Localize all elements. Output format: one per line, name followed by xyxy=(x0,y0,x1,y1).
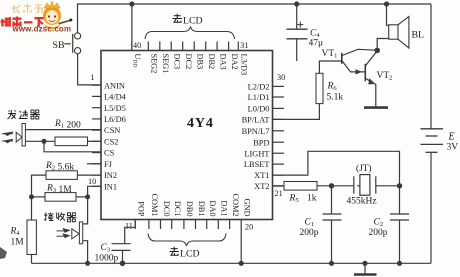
svg-text:47μ: 47μ xyxy=(309,38,324,48)
svg-text:R6: R6 xyxy=(327,81,338,92)
wire left column to R2 xyxy=(32,175,47,220)
svg-text:POP: POP xyxy=(137,201,146,217)
svg-text:www.dzsc.com: www.dzsc.com xyxy=(12,25,72,34)
wire bottom ground rail xyxy=(32,262,432,264)
svg-text:CS: CS xyxy=(104,149,115,158)
wire R1 to CS2 xyxy=(88,140,102,142)
wire R2 to IN2 xyxy=(77,174,101,176)
svg-text:LCD: LCD xyxy=(183,16,203,27)
resistor R3 1M xyxy=(45,193,76,202)
svg-text:DA0: DA0 xyxy=(208,200,217,216)
node R3 left junction xyxy=(29,194,34,199)
svg-text:L0/D0: L0/D0 xyxy=(248,105,270,114)
label transmitter (fa-song-qi) xyxy=(8,110,17,119)
svg-text:C1: C1 xyxy=(305,217,315,228)
capacitor C1 200p xyxy=(331,186,333,214)
svg-text:4Y4: 4Y4 xyxy=(187,116,214,131)
svg-text:DC0: DC0 xyxy=(162,201,171,217)
svg-text:1M: 1M xyxy=(11,237,25,247)
svg-text:R3 1M: R3 1M xyxy=(46,183,72,195)
svg-text:30: 30 xyxy=(277,73,285,82)
label receiver (jie-shou-qi) xyxy=(44,213,54,221)
svg-text:DB2: DB2 xyxy=(207,54,216,70)
svg-text:DC2: DC2 xyxy=(184,54,193,70)
label: to-LCD (bottom) xyxy=(170,247,179,256)
svg-text:DC1: DC1 xyxy=(173,201,182,217)
speaker BL xyxy=(389,25,398,39)
wire R5 to crystal node xyxy=(317,185,354,187)
resistor R4 1M xyxy=(27,220,36,255)
svg-text:200p: 200p xyxy=(300,228,319,238)
svg-text:5.1k: 5.1k xyxy=(327,92,344,102)
wire UDD pin40 drop xyxy=(131,4,133,51)
IC left pins 1-10 stubs xyxy=(92,84,101,86)
svg-text:SEG2: SEG2 xyxy=(150,54,159,74)
wire R4 to bottom rail xyxy=(31,255,33,264)
svg-text:R4: R4 xyxy=(10,226,21,237)
IC bottom pins 11-20 stubs xyxy=(134,220,136,230)
svg-text:VT1: VT1 xyxy=(322,49,338,60)
svg-text:200p: 200p xyxy=(369,228,388,238)
brace to LCD (bottom) xyxy=(148,234,226,247)
node receiver/rail junction xyxy=(85,261,90,266)
node collectors/speaker junction xyxy=(374,48,380,54)
op-amp U1: IC 4Y4 body xyxy=(101,51,273,220)
watermark faint outline characters xyxy=(11,4,42,13)
wire FJ stub xyxy=(87,163,101,165)
svg-text:L1/D1: L1/D1 xyxy=(248,93,270,102)
ground symbol bottom xyxy=(362,261,367,266)
stray mark left edge xyxy=(0,247,7,259)
svg-text:BPD: BPD xyxy=(253,138,269,147)
wire R3 to IN1 node xyxy=(76,196,88,198)
wire receiver bottom lead xyxy=(83,241,88,264)
node R5/C1/crystal junction xyxy=(329,183,334,188)
svg-text:11: 11 xyxy=(125,221,133,230)
wire node to IN1 xyxy=(88,186,101,197)
svg-text:UDD: UDD xyxy=(132,54,143,68)
svg-text:L6/D6: L6/D6 xyxy=(104,115,126,124)
switch SB xyxy=(75,33,81,39)
wire LED top to CSN xyxy=(25,129,101,131)
svg-text:COM2: COM2 xyxy=(231,193,240,216)
svg-text:DA2: DA2 xyxy=(230,54,239,70)
svg-text:GND: GND xyxy=(243,199,252,217)
svg-text:BL: BL xyxy=(412,29,425,40)
svg-text:DB0: DB0 xyxy=(185,201,194,217)
wire node to CS xyxy=(44,141,101,152)
svg-text:L5/D5: L5/D5 xyxy=(104,104,126,113)
transmitter IR LED D1 xyxy=(22,124,25,146)
svg-text:LCD: LCD xyxy=(180,249,200,260)
svg-text:455kHz: 455kHz xyxy=(347,196,377,206)
svg-text:IN2: IN2 xyxy=(104,171,117,180)
wire to R3 xyxy=(32,196,46,198)
resistor R6 5.1k xyxy=(319,61,341,73)
wire top supply rail xyxy=(78,3,432,5)
svg-text:XT1: XT1 xyxy=(254,171,269,180)
svg-text:DA3: DA3 xyxy=(218,54,227,70)
wire GND pin to rail xyxy=(240,229,242,263)
svg-text:L4/D4: L4/D4 xyxy=(104,93,127,102)
svg-text:DC3: DC3 xyxy=(173,54,182,70)
wire rail to speaker xyxy=(387,4,389,25)
watermark mascot xyxy=(43,1,72,29)
wire receiver top lead xyxy=(83,197,88,224)
svg-text:FJ: FJ xyxy=(104,160,113,169)
capacitor C2 200p xyxy=(399,186,401,214)
svg-text:LBSET: LBSET xyxy=(244,160,270,169)
svg-text:DB3: DB3 xyxy=(196,54,205,70)
node GND/rail junction xyxy=(239,261,244,266)
IC top pins 40-31 stubs xyxy=(131,42,133,51)
svg-text:10: 10 xyxy=(88,177,96,186)
crystal JT 455kHz xyxy=(353,176,355,193)
wire crystal to right node xyxy=(376,185,400,187)
node LED/R1/CS junction xyxy=(42,139,47,144)
svg-text:C2: C2 xyxy=(374,217,384,228)
wire SB to pin1 ANIN xyxy=(78,54,101,85)
node C3/rail junction xyxy=(120,261,126,267)
watermark red text wei-ku-yi-xia xyxy=(1,17,44,27)
svg-text:CS2: CS2 xyxy=(104,137,118,146)
resistor R5 1k xyxy=(284,182,317,191)
wire SB drop from rail xyxy=(77,4,79,33)
svg-text:31: 31 xyxy=(240,41,248,50)
svg-text:L3/D3: L3/D3 xyxy=(240,54,249,76)
capacitor C3 1000p xyxy=(112,243,131,245)
svg-text:1: 1 xyxy=(91,73,95,82)
svg-text:1000p: 1000p xyxy=(95,253,119,263)
resistor R1 200 xyxy=(55,137,88,146)
svg-text:SB: SB xyxy=(53,40,65,51)
svg-text:LIGHT: LIGHT xyxy=(244,149,269,158)
svg-text:BP/LAT: BP/LAT xyxy=(242,116,270,125)
node rail/speaker junction xyxy=(384,1,389,6)
svg-text:20: 20 xyxy=(245,222,253,231)
IC right pins 30-21 stubs xyxy=(273,85,285,87)
wire speaker to collectors xyxy=(377,39,389,51)
svg-text:R1 200: R1 200 xyxy=(54,119,81,131)
label: to-LCD (top) xyxy=(173,14,182,23)
svg-text:C3: C3 xyxy=(101,243,111,254)
svg-text:21: 21 xyxy=(275,189,283,198)
resistor R2 5.6k xyxy=(46,171,77,180)
svg-text:40: 40 xyxy=(133,41,141,50)
node junction rail/UDD xyxy=(129,1,134,6)
node crystal/C2/XT1 junction xyxy=(397,183,402,188)
svg-text:BPN/L7: BPN/L7 xyxy=(242,127,270,136)
svg-text:ANIN: ANIN xyxy=(104,81,125,90)
brace to LCD (top) xyxy=(145,27,235,40)
wire XT1 loop around xyxy=(273,151,400,186)
svg-text:CSN: CSN xyxy=(104,126,120,135)
node rail/C4 junction xyxy=(294,1,299,6)
wire POP to C3 xyxy=(125,220,136,244)
svg-text:COM1: COM1 xyxy=(150,193,159,216)
battery E 3V xyxy=(430,4,432,129)
svg-text:XT2: XT2 xyxy=(254,182,269,191)
svg-text:(JT): (JT) xyxy=(356,163,372,174)
svg-text:SEG1: SEG1 xyxy=(161,54,170,74)
svg-text:DA1: DA1 xyxy=(220,200,229,216)
svg-text:3V: 3V xyxy=(447,142,459,152)
svg-text:VT2: VT2 xyxy=(377,71,393,82)
svg-text:DB1: DB1 xyxy=(197,201,206,217)
node R3/receiver/IN1 junction xyxy=(85,194,90,199)
ground symbol VT2 emitter xyxy=(364,106,388,109)
wire XT2 row xyxy=(273,185,285,187)
wire LED to R1 node xyxy=(25,140,55,142)
svg-text:1k: 1k xyxy=(307,193,317,203)
receiver phototransistor VT3 xyxy=(79,222,82,244)
capacitor C4 47u electrolytic xyxy=(296,4,298,29)
svg-text:L2/D2: L2/D2 xyxy=(248,83,270,92)
svg-text:E: E xyxy=(448,131,455,142)
svg-text:IN1: IN1 xyxy=(104,182,117,191)
svg-text:R5: R5 xyxy=(289,193,299,204)
